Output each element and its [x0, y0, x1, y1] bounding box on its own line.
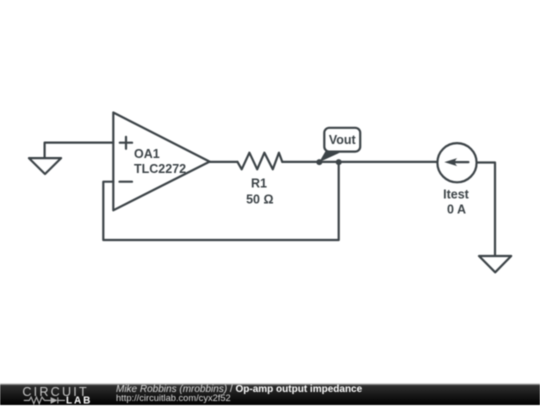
svg-text:50 Ω: 50 Ω: [246, 192, 273, 206]
junction dot at feedback tap: [336, 159, 342, 165]
wire: resistor to current source: [282, 161, 437, 163]
Vout flag box: [324, 128, 360, 152]
current source arrow: [451, 161, 468, 163]
op-amp OA1 triangle: [113, 113, 209, 211]
svg-text:Vout: Vout: [329, 133, 357, 147]
svg-text:R1: R1: [251, 177, 267, 191]
wire: op-amp output to resistor: [210, 161, 238, 163]
Vout flag tail: [319, 151, 340, 162]
resistor R1 zigzag: [238, 153, 283, 170]
ground (right): [479, 256, 511, 272]
current source Itest circle: [437, 143, 476, 182]
current source arrowhead: [444, 158, 457, 166]
op-amp minus sign: [120, 181, 133, 183]
wire: op-amp + input to left ground: [45, 143, 114, 158]
svg-text:OA1: OA1: [134, 147, 160, 161]
CircuitLab logo: [0, 384, 110, 406]
ground (left): [29, 158, 61, 174]
op-amp plus sign: [120, 137, 132, 149]
svg-text:0 A: 0 A: [447, 203, 466, 217]
wire: feedback loop from - input down and around: [103, 162, 338, 240]
svg-text:LAB: LAB: [66, 396, 92, 406]
footer bar: [0, 383, 540, 405]
svg-text:TLC2272: TLC2272: [134, 162, 186, 176]
junction dot at Vout node: [316, 159, 322, 165]
svg-text:Itest: Itest: [443, 188, 470, 202]
wire: current source to right ground: [477, 163, 495, 256]
